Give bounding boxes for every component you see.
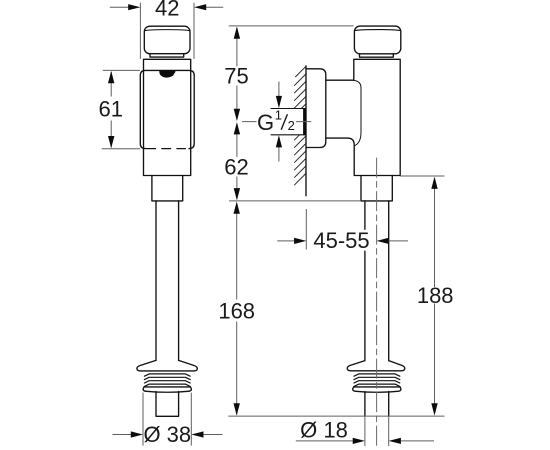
thread ring 3 [144, 381, 190, 383]
dim line 42 tails [110, 6, 224, 8]
arrow diam18 right [389, 438, 401, 444]
svg-text:61: 61 [99, 97, 123, 122]
G1/2 inlet nipple [271, 109, 306, 135]
arrow diam38 left [131, 431, 143, 437]
arrow 45-55 right [377, 238, 389, 244]
arrow 75 top [234, 26, 240, 38]
thread ring 4 (side view) [354, 384, 400, 386]
thread ring 2 [144, 377, 190, 379]
arrow G1/2 bottom [276, 135, 282, 147]
arrow 42 right [194, 4, 206, 10]
locknut ring (side view) [353, 387, 401, 392]
outlet flange (side view) [361, 176, 392, 201]
wall line [305, 66, 307, 196]
dim line diam18 tails [296, 440, 434, 442]
ext line body bottom (188) [400, 175, 444, 177]
cap neck ring [150, 54, 184, 57]
dim line 168 segments [236, 204, 238, 415]
arrow 61 bottom [108, 136, 114, 148]
svg-text:168: 168 [218, 298, 255, 323]
ext lines for 61 [102, 70, 141, 148]
valve body (front view) [144, 59, 191, 175]
thread ring 4 [144, 384, 190, 386]
svg-text:75: 75 [224, 63, 248, 88]
dim line 45-55 tails [277, 240, 408, 242]
centerline of right figure [376, 158, 378, 446]
cover plate dashed bottom edge [147, 148, 186, 150]
svg-text:1: 1 [275, 107, 282, 122]
G1/2 dim line segments [278, 82, 280, 162]
dim line 62 segments [236, 124, 238, 199]
ext line at flange bottom (62/168) [229, 200, 361, 202]
wall hatching [294, 66, 306, 185]
body inner contour (side view) [354, 80, 361, 145]
arrow diam38 right [191, 431, 203, 437]
dim line 75 segments [236, 28, 238, 120]
svg-text:45-55: 45-55 [313, 228, 369, 253]
thread ring 1 (side view) [354, 374, 400, 376]
arrow 62 top [234, 122, 240, 134]
nipple collar dark bar [303, 108, 306, 135]
arrow 188 bottom [431, 403, 437, 415]
arrow 42 left [128, 4, 140, 10]
arrow 45-55 left [294, 238, 306, 244]
arrow 168 top [234, 202, 240, 214]
arrow 168 bottom [234, 403, 240, 415]
arrow G1/2 top [276, 96, 282, 108]
thin pipe end extensions (diam 18) [365, 416, 389, 446]
svg-text:Ø 18: Ø 18 [300, 417, 348, 442]
valve body (side view) [326, 59, 400, 175]
thread ring 2 (side view) [354, 377, 400, 379]
cover plate (rounded, solid sides) [140, 70, 194, 148]
wall escutcheon flange [306, 69, 326, 148]
svg-text:188: 188 [417, 283, 454, 308]
dim line diam38 tails [113, 434, 223, 436]
GROHE logo badge [159, 70, 175, 77]
thread ring 3 (side view) [354, 381, 400, 383]
push-button cap (front view) [144, 26, 190, 54]
arrowheads, right figure [234, 26, 438, 444]
arrowheads, left figure [108, 4, 240, 438]
dim line 61 segments [110, 72, 112, 147]
ext line wall (45-55) [305, 209, 307, 250]
svg-text:Ø 38: Ø 38 [143, 422, 191, 447]
arrow 188 top [431, 177, 437, 189]
text 45-55 (with mask) [313, 230, 371, 251]
arrow 62 bottom [234, 188, 240, 200]
cap top face line [145, 29, 189, 32]
outlet flange (front view) [152, 176, 183, 201]
thread ring 1 [144, 374, 190, 376]
ext lines for diam 38 [143, 393, 191, 446]
svg-text:2: 2 [288, 118, 295, 133]
flush pipe (front view) [156, 201, 179, 361]
centre tick at G1/2 level [242, 121, 311, 123]
arrow diam18 left [353, 438, 365, 444]
ext lines for 42 [140, 3, 194, 59]
arrow 75 bottom [234, 109, 240, 121]
pipe bell flange (side view) [347, 361, 405, 371]
ext line pipe end (168/188) [228, 415, 444, 417]
pipe bell flange (front view) [137, 360, 197, 371]
svg-text:42: 42 [155, 0, 179, 21]
push-button cap (side view) [354, 26, 400, 54]
svg-text:G: G [257, 110, 274, 135]
arrow 61 top [108, 71, 114, 83]
cap neck ring (side view) [360, 54, 394, 57]
cap top face line (side view) [355, 29, 400, 32]
pipe end stub (side view) [365, 392, 389, 417]
locknut ring (front view) [143, 387, 191, 392]
ext line top of valve (75) [229, 25, 354, 27]
pipe end stub (front view) [156, 392, 179, 417]
flush pipe (side view) [365, 201, 389, 361]
dim line 188 segments [434, 179, 436, 414]
svg-text:62: 62 [224, 154, 248, 179]
